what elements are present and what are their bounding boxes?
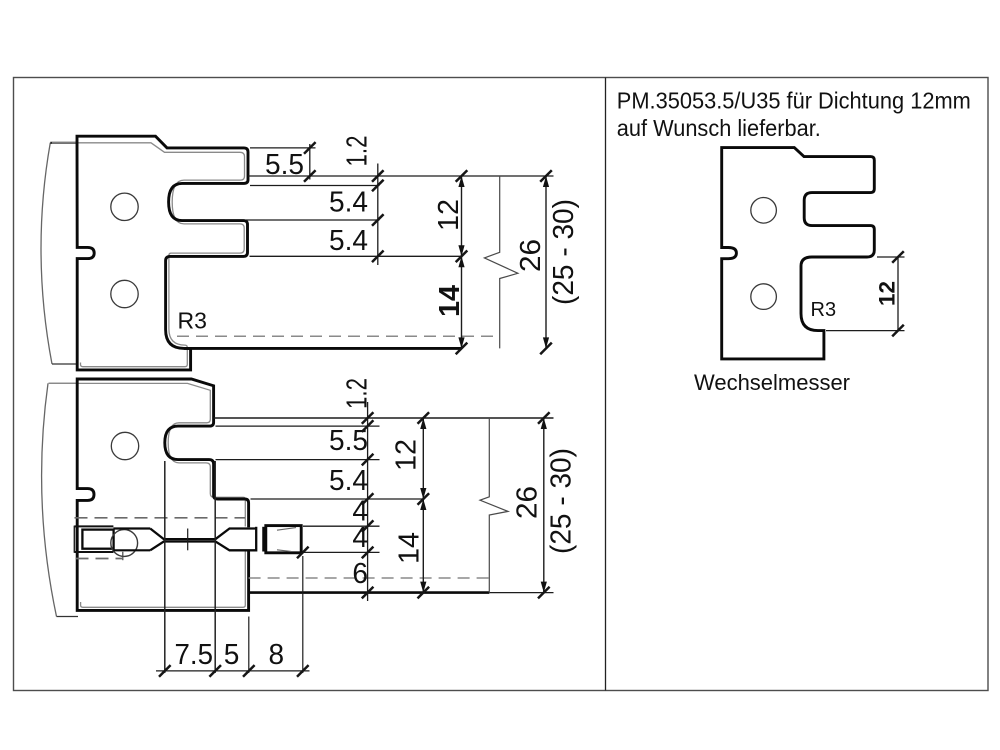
clamp channel bottom line right (bottom drawing) [113,549,150,551]
extension line channel bottom (bottom drawing) [303,551,380,553]
replacement knife hole upper [751,198,777,224]
svg-text:1.2: 1.2 [342,378,374,409]
svg-text:14: 14 [394,532,426,564]
screw head mark lower (bottom drawing) [277,550,291,552]
drawing frame border [14,78,989,691]
svg-text:5.4: 5.4 [329,465,368,497]
svg-text:5: 5 [224,639,240,671]
extension line knife step (bottom drawing) [251,498,424,500]
mounting hole upper (bottom drawing) [111,432,138,459]
dimension line 5.5 (top drawing) [309,144,311,180]
extension line 8 right (bottom drawing) [302,556,304,673]
svg-text:auf Wunsch lieferbar.: auf Wunsch lieferbar. [617,115,821,141]
svg-text:26: 26 [512,486,544,519]
extension line 5.5 top (top drawing) [250,147,316,149]
clamp screw head rectangle (bottom drawing) [266,526,301,553]
clamp spacer left line (bottom drawing) [255,527,257,552]
workpiece top surface line (bottom drawing) [214,417,554,419]
clamp block rectangle (bottom drawing) [82,530,113,549]
svg-text:5.5: 5.5 [329,425,368,457]
svg-text:R3: R3 [811,299,837,321]
svg-text:5.4: 5.4 [329,225,368,257]
cutter body top edge (top drawing) [50,142,77,144]
clamp channel white gap at knife right edge (bottom drawing) [243,527,254,550]
mounting hole lower on channel (bottom drawing) [111,530,138,557]
extension line 5-8 boundary (bottom drawing) [248,617,250,673]
extension line slot bottom (top drawing) [246,219,380,221]
chain dimension line (top drawing) [377,164,379,266]
replacement knife outline [722,148,875,359]
knife seat inner outline (top drawing) [52,143,245,367]
replacement knife hole lower [751,284,777,310]
dashed reference line middle (bottom drawing) [76,558,123,560]
workpiece break edge zigzag (bottom drawing) [480,418,508,593]
dimension line 12 (replacement knife) [897,257,899,331]
clamp channel bottom line left (bottom drawing) [74,551,113,553]
svg-text:6: 6 [352,558,368,590]
cutter body break line (top drawing) [41,143,52,364]
knife seat inner outline (bottom drawing) [49,383,246,607]
svg-text:12: 12 [391,439,423,471]
cutter body top edge (bottom drawing) [49,382,79,384]
cutter body bottom edge (top drawing) [52,363,78,365]
svg-text:Wechselmesser: Wechselmesser [694,370,850,395]
dimension line 26 (top drawing) [545,176,547,348]
dimension line 12-14 (top drawing) [461,176,463,348]
svg-text:R3: R3 [178,308,207,334]
dashed reference line upper (bottom drawing) [75,517,246,519]
workpiece break edge zigzag (top drawing) [484,176,518,348]
svg-text:5.5: 5.5 [265,149,304,181]
workpiece top surface line (top drawing) [248,175,554,177]
clamp channel left cap (bottom drawing) [74,526,77,552]
extension line channel top (bottom drawing) [303,525,380,527]
clamp wedge lower profile (bottom drawing) [150,542,256,551]
svg-text:5.4: 5.4 [329,187,368,219]
svg-text:12: 12 [874,281,899,306]
wear limit dashed line (top drawing) [177,335,500,337]
clamp spacer right line (bottom drawing) [262,527,264,552]
svg-text:1.2: 1.2 [342,136,374,167]
mounting hole upper (top drawing) [111,193,138,220]
extension line 12 top (replacement knife) [877,256,905,258]
seat corner line below hole (bottom drawing) [122,552,124,560]
extension line slot top (top drawing) [250,185,380,187]
knife profile outline (top drawing) [77,136,248,370]
dashed reference line lower (bottom drawing) [249,577,490,579]
knife profile outline (bottom drawing) [77,379,248,610]
svg-text:8: 8 [269,639,285,671]
cutting edge line (top drawing) [184,347,462,350]
svg-text:4: 4 [352,522,368,554]
extension line 7.5-5 boundary (bottom drawing) [214,461,216,673]
dimension line 26 (bottom drawing) [543,418,545,593]
cutter body bottom edge (bottom drawing) [57,616,79,618]
svg-text:PM.35053.5/U35 für Dichtung 12: PM.35053.5/U35 für Dichtung 12mm [617,88,971,114]
extension line 7.5 left (bottom drawing) [164,461,166,673]
extension line tooth bottom (top drawing) [250,255,462,257]
svg-text:(25 - 30): (25 - 30) [546,448,578,554]
extension line 12 bottom (replacement knife) [826,330,905,332]
clamp wedge joint line (bottom drawing) [187,529,189,551]
clamp wedge upper profile (bottom drawing) [150,529,256,540]
cutter body break line (bottom drawing) [42,383,57,616]
svg-text:(25 - 30): (25 - 30) [548,199,580,305]
svg-text:26: 26 [515,239,547,272]
dimension line 12-14 (bottom drawing) [422,418,424,593]
extension line slot top (bottom drawing) [216,425,380,427]
extension line slot bottom (bottom drawing) [216,459,380,461]
screw head mark upper (bottom drawing) [277,528,296,531]
clamp channel top line left (bottom drawing) [74,525,113,527]
clamp channel top line right (bottom drawing) [113,527,150,529]
chain dimension line (bottom drawing) [367,402,369,601]
dimension line 7.5-5-8 (bottom drawing) [156,670,310,672]
svg-text:12: 12 [433,199,465,231]
mounting hole lower (top drawing) [111,280,138,307]
workpiece bottom extension (bottom drawing) [489,592,553,594]
workpiece bottom surface line (bottom drawing) [249,591,490,594]
svg-text:14: 14 [434,285,466,317]
panel divider line [605,78,607,691]
svg-text:7.5: 7.5 [175,639,214,671]
